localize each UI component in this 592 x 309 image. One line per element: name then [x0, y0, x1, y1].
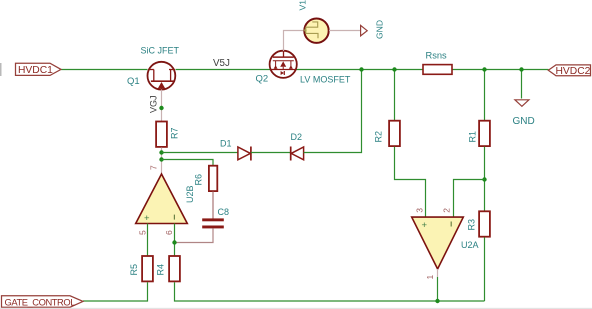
capacitor C8	[202, 218, 224, 228]
svg-text:R5: R5	[129, 264, 139, 276]
junction R7/D1	[159, 150, 163, 154]
wire HVDC2 branch to GND	[521, 70, 523, 99]
port GATE_CONTROL	[2, 296, 84, 308]
svg-text:GND: GND	[375, 20, 385, 39]
resistor R5	[142, 256, 153, 281]
diode D2	[291, 147, 304, 161]
junction pin7 node	[159, 157, 163, 161]
svg-text:R3: R3	[467, 219, 477, 231]
wire R3 bottom to output rail	[484, 237, 486, 301]
svg-text:+: +	[422, 220, 428, 231]
svg-text:R1: R1	[468, 131, 478, 143]
svg-text:U2B: U2B	[185, 185, 195, 203]
op-amp U2B	[136, 174, 188, 224]
svg-text:R2: R2	[374, 131, 384, 143]
svg-text:D2: D2	[291, 132, 303, 142]
wire main HVDC1 to Q1	[61, 69, 148, 71]
wire Q2 drain to V1 (pale)	[284, 31, 305, 52]
resistor R6	[209, 166, 217, 191]
wire U2B pin5 to R5	[147, 224, 149, 257]
svg-text:5: 5	[138, 230, 148, 235]
svg-text:U2A: U2A	[461, 240, 479, 250]
junction top rail / D2 branch	[359, 67, 363, 71]
wire Rsns to HVDC2	[452, 69, 549, 71]
svg-text:R7: R7	[170, 127, 180, 139]
op-amp U2A	[412, 217, 464, 269]
junction pin6/C8	[172, 240, 176, 244]
wire U2A output pale stub	[437, 269, 439, 277]
wire U2A output to rail	[437, 277, 439, 301]
wire V1 to GND (pale)	[329, 30, 361, 32]
wire top rail to R1	[484, 70, 486, 121]
wire R2 bottom to U2A pin3	[395, 147, 426, 217]
wire D1 to D2	[251, 152, 291, 154]
svg-text:HVDC1: HVDC1	[18, 65, 53, 76]
port HVDC1	[16, 63, 62, 76]
wire R7 bottom to op-amp U2B pin7	[161, 148, 163, 175]
svg-text:1: 1	[425, 275, 435, 280]
wire R1 bottom to node	[484, 147, 486, 212]
port HVDC2	[548, 65, 590, 77]
junction VGJ node	[159, 106, 163, 110]
wire R4 bottom to output rail	[175, 282, 485, 301]
resistor R3	[479, 211, 490, 236]
svg-text:2: 2	[442, 208, 452, 213]
resistor R1	[479, 121, 490, 146]
svg-text:6: 6	[164, 230, 174, 235]
diode D1	[238, 147, 251, 161]
svg-text:VGJ: VGJ	[149, 95, 159, 113]
wire C8 bottom to pin6 node (pale)	[175, 228, 214, 242]
svg-text:C8: C8	[218, 207, 230, 217]
transistor Q1 (SiC JFET)	[148, 62, 176, 90]
svg-text:7: 7	[149, 165, 159, 170]
wire Q1 to Q2	[176, 69, 271, 71]
wire Q2 to Rsns	[297, 69, 424, 71]
transistor Q2 (LV MOSFET)	[270, 51, 297, 78]
junction output rail	[435, 299, 439, 303]
junction top rail / R2 branch	[392, 67, 396, 71]
wire R6 bottom to C8 (pale)	[212, 192, 214, 220]
resistor R7	[156, 122, 167, 147]
wire to D1	[162, 152, 238, 154]
wire U2B pin6 to R4	[174, 224, 176, 257]
ground below HVDC2	[515, 100, 529, 107]
window edge artifacts	[0, 63, 2, 76]
resistor Rsns	[423, 65, 452, 75]
junction top rail / R1 branch	[482, 67, 486, 71]
junction R1/R3/pin2	[482, 177, 486, 181]
svg-text:HVDC2: HVDC2	[556, 66, 591, 77]
svg-text:Q2: Q2	[256, 74, 269, 85]
svg-text:R4: R4	[156, 264, 166, 276]
wire gate of Q1 down to R7 (pale)	[161, 90, 163, 122]
svg-text:GND: GND	[513, 116, 535, 127]
svg-text:D1: D1	[220, 139, 232, 149]
wire node to U2A pin2	[454, 180, 485, 218]
wire pin7 to R6 top	[162, 160, 214, 166]
wire R5 bottom to GATE_CONTROL	[83, 282, 148, 301]
svg-text:3: 3	[415, 208, 425, 213]
svg-text:R6: R6	[194, 174, 204, 186]
source V1	[304, 19, 329, 43]
resistor R2	[389, 121, 400, 146]
svg-text:Rsns: Rsns	[426, 51, 448, 61]
svg-text:Q1: Q1	[127, 76, 140, 87]
ground right of V1	[361, 25, 368, 36]
wire top rail to R2	[394, 70, 396, 121]
junction top rail / HVDC2 GND branch	[519, 67, 523, 71]
svg-text:SiC JFET: SiC JFET	[141, 46, 180, 56]
svg-text:+: +	[144, 213, 150, 224]
svg-text:V1: V1	[298, 0, 308, 11]
svg-text:GATE_CONTROL: GATE_CONTROL	[5, 297, 76, 308]
svg-text:V5J: V5J	[213, 58, 230, 69]
resistor R4	[169, 256, 180, 281]
wire D2 right to top rail	[304, 70, 362, 153]
svg-text:LV MOSFET: LV MOSFET	[300, 75, 351, 85]
